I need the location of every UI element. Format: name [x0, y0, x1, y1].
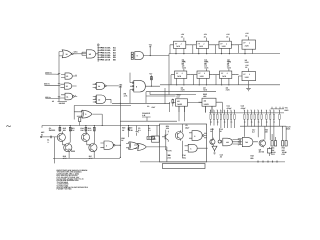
gate U2c NAND divider: [82, 50, 98, 58]
svg-text:2N2222: 2N2222: [49, 129, 55, 132]
label C4 0.1: [148, 127, 151, 132]
wire audio line keyer taps: [129, 126, 157, 138]
label R23: [250, 155, 253, 160]
node bottom rail dots: [257, 160, 277, 162]
resistor R25 network: [282, 141, 288, 157]
gate U13c OR tone: [134, 143, 167, 162]
svg-text:10: 10: [98, 98, 100, 101]
wire ladder drops left group: [211, 119, 235, 128]
label COMPOSITE A-B: [142, 112, 151, 121]
svg-text:7476: 7476: [203, 89, 207, 92]
wire keyer feedback vertical: [120, 86, 121, 126]
flip-flop U9 7476 row2 col1: [171, 60, 190, 91]
wire oscillator output run: [76, 53, 86, 55]
gate U2a NAND TP: [93, 82, 122, 89]
label 1A out: [147, 105, 156, 109]
flip-flop U8 7476 row1 col4: [239, 32, 256, 64]
svg-text:2222: 2222: [71, 150, 75, 153]
svg-text:16: 16: [226, 35, 228, 38]
wire ladder drops right group: [244, 119, 286, 140]
label C11 470pF: [227, 105, 233, 110]
svg-text:741: 741: [245, 141, 248, 144]
label signal list: [101, 47, 117, 62]
svg-text:6: 6: [194, 135, 195, 138]
label C10: [182, 154, 185, 159]
svg-text:1/2: 1/2: [177, 100, 179, 103]
label keyer note: [52, 100, 67, 105]
svg-text:470pF: 470pF: [241, 107, 247, 110]
wire bottom rail: [140, 161, 285, 163]
label R12 10K: [63, 127, 67, 132]
label R15 4.7K: [88, 127, 92, 132]
resistor ladder bus: [209, 112, 284, 114]
wire interbox row2: [190, 74, 238, 76]
svg-text:OSC: OSC: [74, 51, 79, 54]
gate U2b NAND 3-input: [93, 95, 111, 104]
svg-text:12: 12: [66, 85, 68, 88]
label input 100Hz: [45, 96, 61, 99]
wire pot drops: [272, 126, 286, 140]
svg-text:.05: .05: [220, 156, 222, 159]
label ladder values: [210, 121, 276, 124]
wire loop frame top: [74, 106, 131, 120]
svg-text:J: J: [249, 73, 250, 76]
wire interbox row1: [189, 44, 238, 46]
gate U4 NAND osc: [131, 43, 169, 94]
svg-text:U18: U18: [203, 95, 206, 98]
label Q1: [49, 127, 55, 132]
svg-text:4 2: 4 2: [97, 43, 99, 46]
label R20 2.2K: [129, 127, 133, 132]
svg-text:40: 40: [52, 100, 54, 103]
ground speaker funnel: [212, 146, 217, 154]
label R13 47K: [71, 127, 75, 132]
wire audio line y103: [112, 102, 170, 104]
svg-text:7476: 7476: [176, 45, 180, 48]
crystal Y1: [147, 137, 155, 140]
flip-flop U12 7476 row2 col4: [239, 64, 256, 91]
svg-text:7476: 7476: [222, 45, 226, 48]
node MIC input: [41, 131, 56, 163]
label C15: [220, 153, 223, 158]
wire transistor interconnects: [55, 131, 94, 158]
wire row1 Q bus: [169, 53, 280, 55]
gate U14b NAND: [185, 144, 208, 152]
node rail junction dots: [59, 125, 149, 126]
label R21 10K: [166, 125, 170, 130]
box osc module: [152, 136, 160, 142]
svg-text:7476: 7476: [182, 67, 186, 70]
flip-flop U5 7476 row1 col1: [170, 33, 189, 65]
wire U2b output corner: [110, 99, 112, 103]
transistor Q7 output: [210, 128, 215, 146]
svg-text:13: 13: [66, 75, 68, 78]
svg-text:0.1: 0.1: [138, 129, 140, 132]
resistor R10 in loop: [79, 118, 81, 126]
svg-text:2.2: 2.2: [252, 131, 254, 134]
label C13: [220, 128, 223, 133]
svg-text:5: 5: [190, 147, 191, 150]
svg-text:10: 10: [66, 53, 68, 56]
svg-text:7476: 7476: [245, 45, 249, 48]
label R16 4.7K: [63, 155, 67, 160]
wire osc internal drops: [181, 141, 183, 158]
resistor R9 pullup +5V: [149, 73, 153, 87]
svg-text:470pF: 470pF: [227, 107, 233, 110]
flip-flop U6 7476 row1 col2: [193, 33, 212, 65]
svg-text:7476: 7476: [245, 61, 249, 64]
label C9 22pF: [185, 124, 190, 129]
svg-text:680: 680: [250, 157, 253, 160]
label ladder pin numbers: [210, 108, 280, 111]
label R22: [210, 128, 213, 133]
label Q8 2N2222: [259, 148, 264, 153]
svg-text:16: 16: [245, 34, 247, 37]
label C12 470pF: [241, 105, 247, 110]
flip-flop U11 7476 row2 col3: [216, 60, 235, 91]
capacitor C16: [267, 147, 271, 156]
wire M2 pin drops: [206, 106, 213, 113]
svg-text:11: 11: [66, 95, 68, 98]
flip-flop U7 7476 row1 col3: [216, 33, 235, 65]
resistor R11 between M boxes: [169, 99, 174, 112]
svg-text:REG: REG: [285, 109, 290, 112]
svg-text:J: J: [181, 42, 182, 45]
svg-text:1750: 1750: [167, 156, 171, 159]
svg-text:7476: 7476: [245, 76, 249, 79]
wire line y121: [120, 106, 184, 121]
node tilde mark: [6, 126, 11, 127]
wire long rail y125.5: [42, 126, 160, 128]
transistor Q2: [64, 126, 75, 154]
svg-text:TP3: TP3: [168, 150, 171, 153]
box M1 one-shot: [172, 93, 202, 112]
wire row2 clock bus: [160, 84, 280, 86]
svg-text:7476: 7476: [222, 75, 226, 78]
resistor ladder R20-R37: [210, 110, 280, 119]
label input 600Hz: [44, 83, 60, 86]
gate U3 AND clock driver: [130, 73, 160, 104]
svg-text:POWER +5V REG: POWER +5V REG: [57, 188, 73, 191]
svg-text:J: J: [182, 72, 183, 75]
box M2 one-shot: [199, 93, 223, 113]
note parts list: [57, 169, 89, 191]
op-amp U16 final: [238, 137, 258, 146]
svg-text:2: 2: [85, 113, 86, 116]
capacitor C14: [218, 128, 222, 143]
transistor Q3: [81, 126, 89, 143]
gate U14a NAND: [189, 131, 207, 141]
label R14 10K: [80, 127, 84, 132]
label input 4000Hz: [45, 71, 59, 74]
gate U1d AND 100Hz: [61, 93, 77, 100]
label R17 4.7K: [89, 155, 93, 160]
svg-text:16: 16: [204, 35, 206, 38]
label R19 1K: [122, 127, 125, 132]
resistor R24 network: [271, 141, 277, 157]
box title strip: [163, 164, 206, 169]
svg-text:7476: 7476: [200, 75, 204, 78]
transistor Q5 bare: [162, 130, 168, 150]
wire below row2: [150, 92, 196, 95]
svg-text:16: 16: [245, 66, 247, 69]
svg-text:7476: 7476: [227, 67, 231, 70]
svg-text:J: J: [204, 72, 205, 75]
svg-text:7476: 7476: [204, 67, 208, 70]
svg-text:74123: 74123: [177, 103, 182, 106]
label R26 10K: [265, 128, 269, 133]
label R8 4.7K: [124, 93, 128, 98]
svg-text:3: 3: [106, 144, 107, 147]
svg-text:2N706: 2N706: [259, 151, 264, 154]
svg-text:7476: 7476: [226, 89, 230, 92]
svg-text:7476: 7476: [199, 45, 203, 48]
transistor Q4: [89, 126, 97, 154]
label TP4: [167, 154, 171, 159]
wire ground rail left: [53, 157, 120, 159]
svg-text:.1: .1: [47, 141, 48, 144]
node bus stub column: [97, 43, 102, 62]
svg-text:J: J: [203, 42, 204, 45]
transistor Q8: [259, 126, 265, 147]
node junction column: [120, 126, 125, 158]
svg-text:KEYER: KEYER: [59, 102, 66, 105]
capacitor C2 blob: [128, 127, 130, 130]
label C3 0.1: [138, 127, 140, 132]
gate U1a NOR: [59, 50, 78, 58]
svg-text:PIN 12 U9: PIN 12 U9: [101, 59, 111, 62]
svg-text:74123: 74123: [204, 103, 209, 106]
svg-text:J: J: [226, 42, 227, 45]
wire routing pair under grid: [146, 88, 216, 104]
svg-text:1/2: 1/2: [204, 100, 206, 103]
bus +V right with ticks: [271, 107, 290, 112]
gate U1c AND 600Hz: [60, 83, 76, 89]
capacitor C3 symbol: [136, 131, 139, 136]
gate U13b XOR tone: [126, 142, 139, 150]
transistor Q1: [57, 126, 65, 143]
transistor Q6: [175, 124, 183, 141]
svg-text:9: 9: [137, 55, 138, 58]
svg-text:.001: .001: [182, 156, 185, 159]
svg-text:U17: U17: [177, 95, 180, 98]
box shielded oscillator frame: [160, 124, 207, 162]
svg-text:16: 16: [181, 35, 183, 38]
svg-text:7476: 7476: [177, 75, 181, 78]
label TP3: [168, 150, 171, 157]
svg-text:7476: 7476: [181, 89, 185, 92]
svg-text:8: 8: [136, 85, 137, 88]
wire G1 input corner: [58, 51, 60, 53]
svg-text:1/2: 1/2: [89, 53, 91, 56]
wire feed vertical left: [58, 52, 60, 102]
label C17 2.2: [252, 128, 255, 133]
svg-text:J: J: [227, 72, 228, 75]
wire +12V rail: [240, 125, 291, 130]
flip-flop U10 7476 row2 col2: [194, 60, 213, 91]
gate U1b AND 4000Hz: [61, 73, 77, 79]
gate U2d XOR in loop: [79, 110, 103, 125]
gate U13a NAND keyer: [100, 141, 120, 149]
svg-text:J: J: [249, 41, 250, 44]
op-amp U15 audio: [223, 138, 241, 146]
